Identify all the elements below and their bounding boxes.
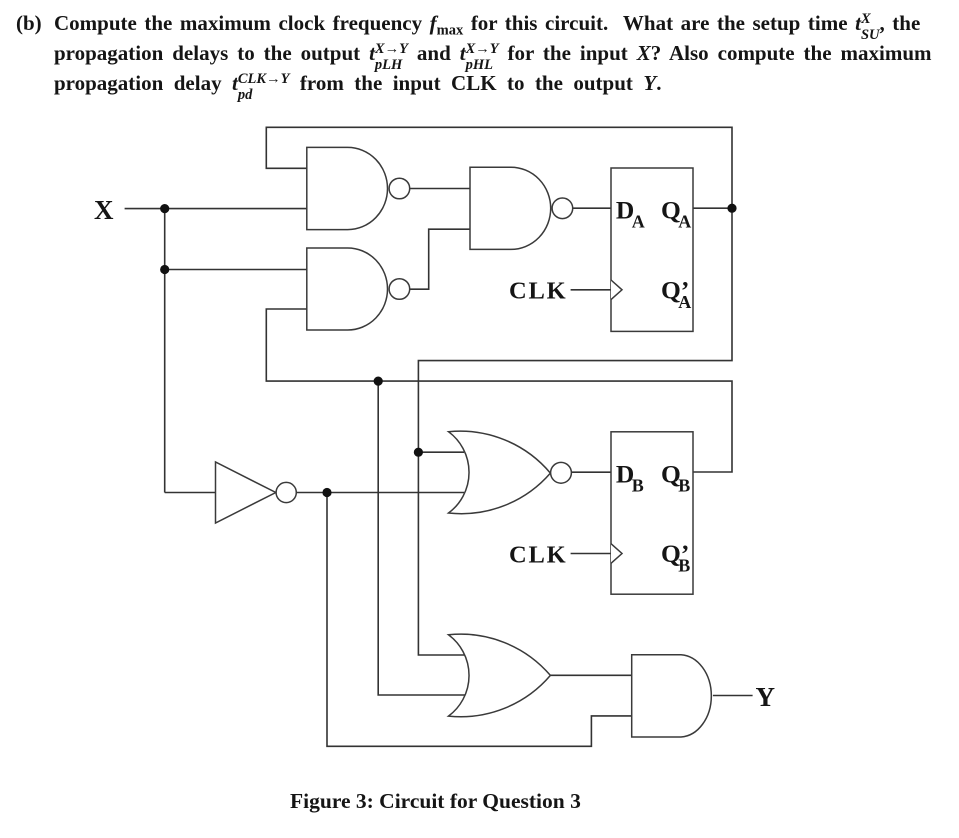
svg-text:A: A xyxy=(678,292,691,312)
svg-text:X: X xyxy=(94,195,114,225)
svg-text:CLK: CLK xyxy=(509,541,568,568)
svg-text:B: B xyxy=(678,556,690,576)
svg-text:A: A xyxy=(632,212,645,232)
svg-text:B: B xyxy=(678,475,690,495)
svg-text:Y: Y xyxy=(756,682,776,712)
svg-text:B: B xyxy=(632,475,644,495)
svg-text:CLK: CLK xyxy=(509,278,568,305)
svg-text:A: A xyxy=(678,212,691,232)
